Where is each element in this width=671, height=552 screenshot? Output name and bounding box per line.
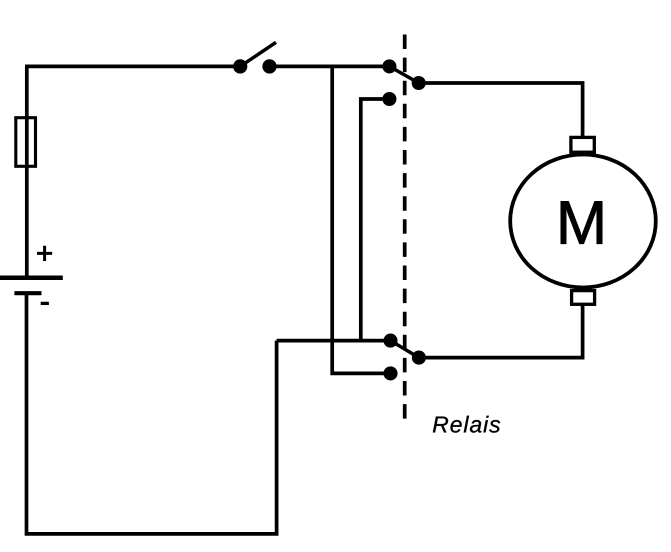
- fuse F1: [16, 118, 36, 167]
- wire K1a lower terminal down to bottom loop: [361, 99, 390, 341]
- battery B1: [0, 246, 63, 304]
- label Relais: [433, 416, 500, 433]
- motor bottom terminal: [572, 291, 595, 305]
- wire switch to relay contact K1a: [270, 65, 390, 69]
- switch S1: [235, 42, 276, 71]
- motor letter M: [561, 201, 602, 243]
- relay boundary (dashed): [403, 35, 407, 421]
- motor M1 body: [510, 155, 656, 288]
- wire branch down from top wire to K1b lower terminal: [332, 65, 390, 374]
- wire motor bottom to K1b common: [419, 304, 583, 357]
- wire battery plus up to top-left corner: [25, 66, 29, 277]
- wire bottom horizontal into K1b upper terminal: [277, 339, 391, 343]
- relay contact K1a: [384, 61, 424, 104]
- wire top horizontal to switch: [25, 65, 240, 69]
- wire K1a common to motor top: [419, 83, 583, 138]
- motor top terminal: [571, 137, 594, 152]
- relay contact K1b: [385, 335, 424, 378]
- wire battery minus loop (left, bottom, up to relay area): [27, 293, 277, 534]
